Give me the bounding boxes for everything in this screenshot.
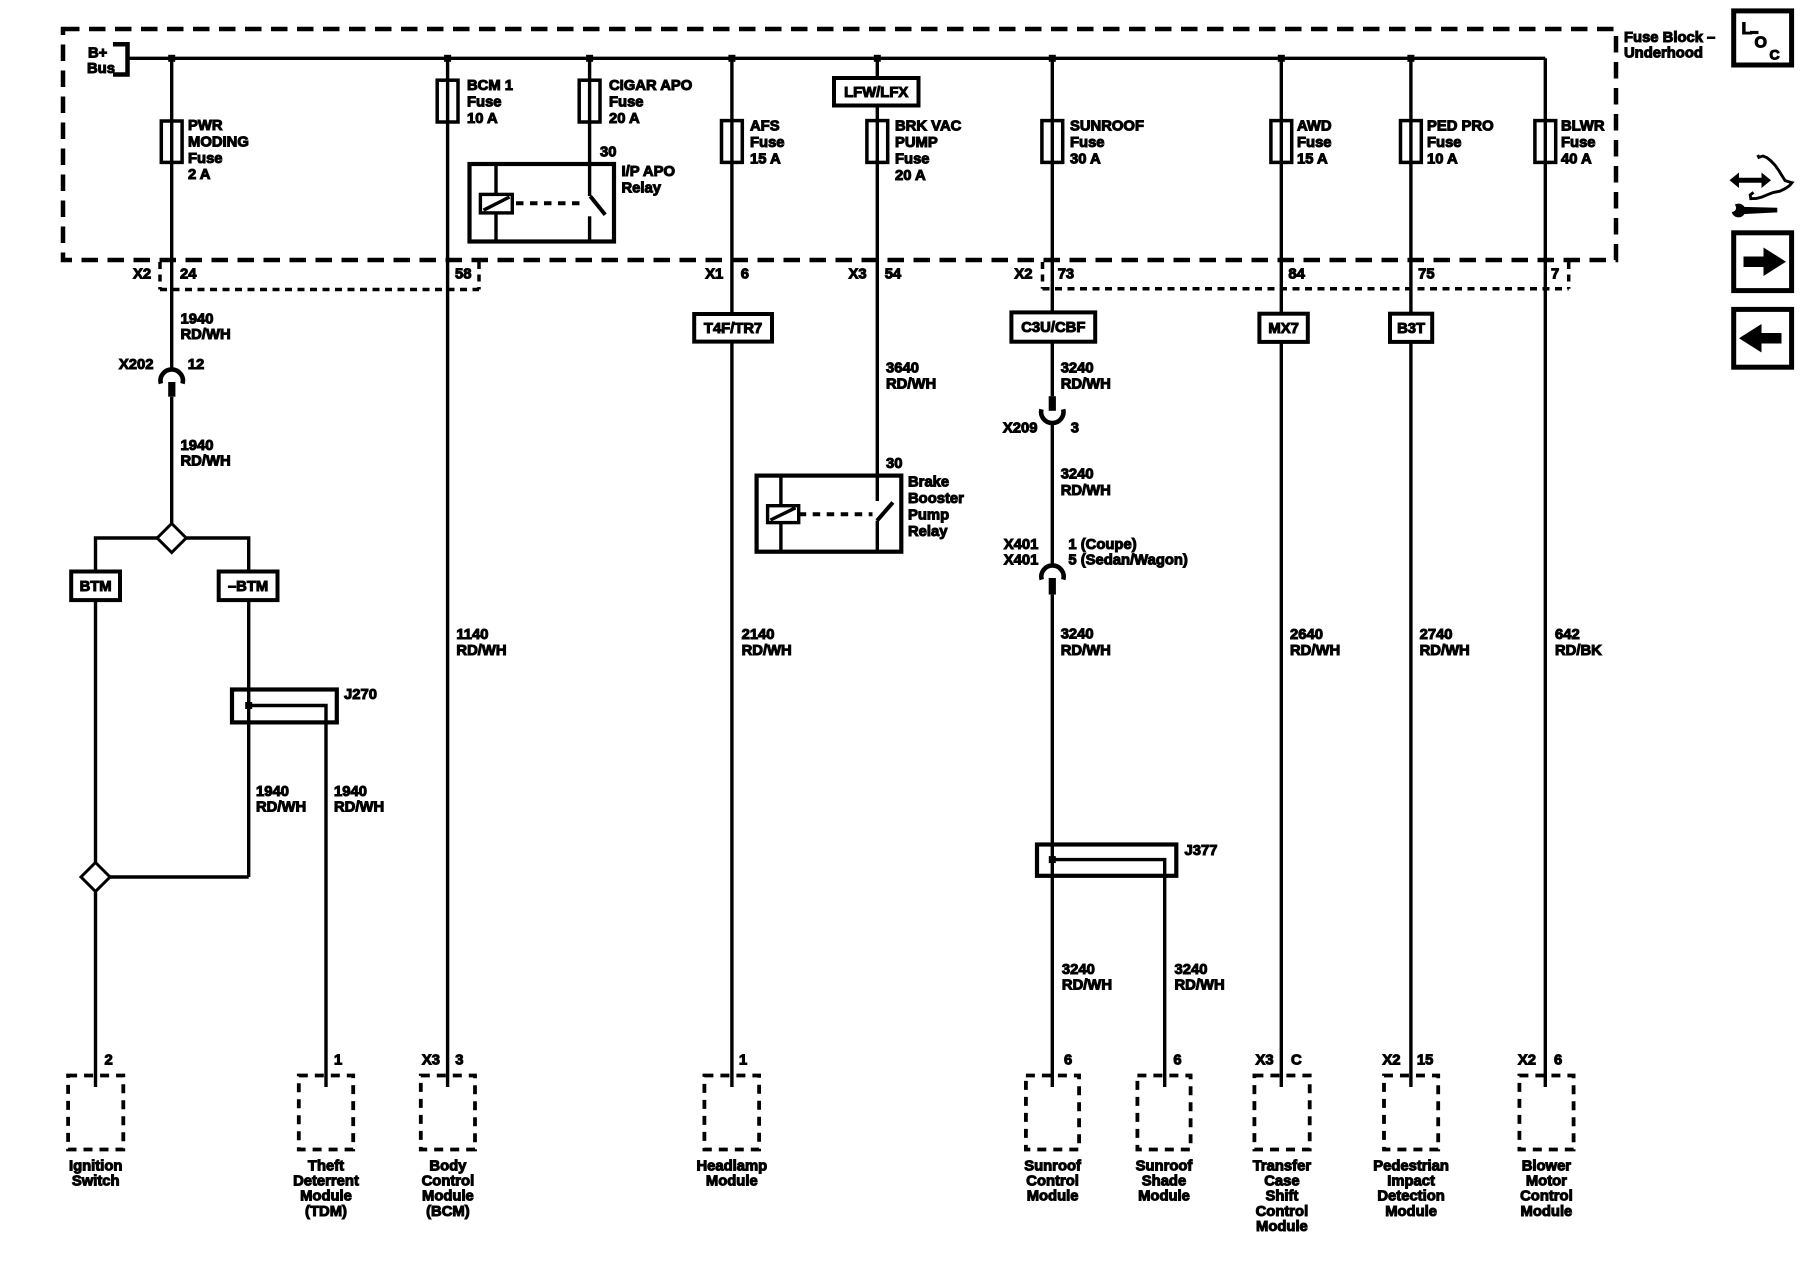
fuse BLWR label: [1561, 119, 1605, 168]
svg-text:3240: 3240: [1175, 962, 1208, 978]
svg-text:Motor: Motor: [1526, 1174, 1567, 1190]
fuse CIGAR APO label: [609, 78, 692, 127]
module headlamp: [696, 1076, 767, 1190]
svg-text:C: C: [1770, 47, 1780, 63]
wire label 2740 RD/WH: [1420, 627, 1470, 659]
connector X2 band (pins 73, 84, 75, 7): [1043, 262, 1569, 289]
wire label 3240 RD/WH (2): [1061, 467, 1111, 499]
svg-text:Blower: Blower: [1522, 1159, 1572, 1175]
svg-text:Theft: Theft: [308, 1159, 344, 1175]
relay brake booster pump label: [908, 475, 964, 540]
module blower motor control: [1519, 1076, 1573, 1220]
splice J270: [232, 690, 337, 1088]
node bus to BCM 1 fuse: [444, 55, 451, 62]
wire BRK VAC fuse to brake booster relay: [876, 58, 879, 501]
svg-text:RD/WH: RD/WH: [181, 327, 231, 343]
svg-text:58: 58: [455, 267, 471, 283]
svg-text:Pump: Pump: [908, 507, 949, 523]
svg-text:X401: X401: [1004, 537, 1039, 553]
svg-text:RD/BK: RD/BK: [1555, 643, 1602, 659]
wire diamond to BTM: [96, 538, 158, 572]
svg-text:Control: Control: [1520, 1189, 1573, 1205]
svg-text:Control: Control: [1026, 1174, 1079, 1190]
svg-text:Relay: Relay: [622, 180, 662, 196]
fuse AWD 15 A: [1271, 121, 1292, 163]
fuse AWD label: [1297, 119, 1332, 168]
svg-text:Deterrent: Deterrent: [293, 1174, 359, 1190]
svg-text:1940: 1940: [181, 311, 214, 327]
icon forward arrow box: [1734, 233, 1792, 291]
connector X202 female half: [161, 369, 183, 383]
wire diamond to ignition switch: [94, 892, 97, 1088]
svg-text:3240: 3240: [1061, 467, 1094, 483]
svg-text:Fuse: Fuse: [1297, 135, 1332, 151]
svg-text:B+: B+: [88, 46, 108, 62]
fuse CIGAR APO 20 A: [579, 80, 600, 122]
svg-text:RD/WH: RD/WH: [1420, 643, 1470, 659]
svg-text:L: L: [1742, 19, 1752, 38]
wire label 2140 RD/WH: [742, 627, 792, 659]
node bus to CIGAR APO fuse: [586, 55, 593, 62]
svg-text:J377: J377: [1185, 843, 1218, 859]
svg-text:3: 3: [455, 1053, 463, 1069]
fuse BCM 1 10 A: [437, 80, 458, 122]
connector X401 pin labels: [1068, 537, 1188, 569]
svg-text:LFW/LFX: LFW/LFX: [844, 85, 908, 101]
svg-text:3240: 3240: [1061, 360, 1094, 376]
fuse SUNROOF 30 A: [1042, 121, 1063, 163]
svg-text:Booster: Booster: [908, 491, 964, 507]
svg-text:SUNROOF: SUNROOF: [1070, 119, 1144, 135]
svg-text:I/P APO: I/P APO: [622, 164, 675, 180]
svg-text:75: 75: [1418, 267, 1434, 283]
svg-text:Pedestrian: Pedestrian: [1373, 1159, 1449, 1175]
wire diamond to -BTM: [186, 538, 249, 572]
svg-text:Brake: Brake: [908, 475, 949, 491]
module sunroof control: [1024, 1076, 1081, 1205]
svg-text:BTM: BTM: [80, 579, 112, 595]
node bus to AWD fuse: [1278, 55, 1285, 62]
module transfer case shift control: [1253, 1076, 1312, 1235]
svg-text:6: 6: [1064, 1053, 1072, 1069]
node bus to BRK VAC PUMP fuse: [874, 55, 881, 62]
svg-text:(TDM): (TDM): [305, 1204, 347, 1220]
svg-text:15: 15: [1417, 1053, 1433, 1069]
svg-text:X202: X202: [119, 357, 154, 373]
fuse PWR MODING label: [188, 118, 249, 183]
svg-text:X401: X401: [1004, 552, 1039, 568]
splice diamond lower: [81, 863, 110, 892]
svg-text:Shift: Shift: [1265, 1189, 1298, 1205]
svg-text:Module: Module: [300, 1189, 352, 1205]
wire X209 to X401: [1051, 423, 1054, 567]
svg-text:PWR: PWR: [188, 118, 223, 134]
svg-text:Module: Module: [1385, 1204, 1437, 1220]
wire X202 to splice diamond: [170, 397, 173, 524]
svg-text:X3: X3: [849, 267, 867, 283]
svg-text:MX7: MX7: [1268, 321, 1298, 337]
svg-text:RD/WH: RD/WH: [742, 643, 792, 659]
svg-text:Case: Case: [1264, 1174, 1299, 1190]
svg-text:AWD: AWD: [1297, 119, 1332, 135]
module theft deterrent module (TDM): [293, 1076, 359, 1220]
svg-text:Body: Body: [429, 1159, 467, 1175]
svg-text:2640: 2640: [1290, 627, 1323, 643]
svg-text:CIGAR APO: CIGAR APO: [609, 78, 692, 94]
connector X401 female half: [1041, 565, 1063, 579]
svg-text:1940: 1940: [181, 438, 214, 454]
relay I/P APO: [470, 164, 615, 242]
svg-text:3: 3: [1071, 420, 1079, 436]
wire label 642 RD/BK: [1555, 627, 1602, 659]
wire label 1940 RD/WH (right of J270): [334, 784, 384, 816]
svg-text:T4F/TR7: T4F/TR7: [704, 321, 762, 337]
wire BTM to splice diamond lower: [94, 600, 97, 863]
connector X209 female half: [1041, 409, 1063, 423]
svg-text:RD/WH: RD/WH: [1062, 977, 1112, 993]
svg-text:5 (Sedan/Wagon): 5 (Sedan/Wagon): [1068, 552, 1188, 568]
svg-text:Module: Module: [1027, 1189, 1079, 1205]
svg-text:Switch: Switch: [72, 1174, 120, 1190]
node bus to PED PRO fuse: [1407, 55, 1414, 62]
svg-text:73: 73: [1058, 267, 1074, 283]
svg-text:2 A: 2 A: [188, 167, 211, 183]
svg-text:84: 84: [1288, 267, 1305, 283]
svg-text:RD/WH: RD/WH: [181, 454, 231, 470]
fuse BLWR 40 A: [1535, 121, 1556, 163]
fuse BRK VAC PUMP 20 A: [867, 121, 888, 163]
svg-text:RD/WH: RD/WH: [1061, 483, 1111, 499]
wire label 1940 RD/WH (lower): [181, 438, 231, 470]
node bus to AFS fuse: [728, 55, 735, 62]
svg-text:Headlamp: Headlamp: [696, 1159, 767, 1175]
connector X401 male pin: [1049, 578, 1056, 595]
svg-text:2740: 2740: [1420, 627, 1453, 643]
svg-text:20 A: 20 A: [895, 168, 926, 184]
fuse PED PRO 10 A: [1401, 121, 1422, 163]
node bus to PWR MODING fuse: [168, 55, 175, 62]
switch contact BTM: [71, 572, 120, 601]
svg-text:10 A: 10 A: [1427, 151, 1458, 167]
fuse block label: [1624, 30, 1715, 62]
net tag MX7: [1259, 314, 1307, 342]
svg-text:RD/WH: RD/WH: [256, 800, 306, 816]
module body control module (BCM): [421, 1076, 475, 1220]
svg-text:Transfer: Transfer: [1253, 1159, 1312, 1175]
net tag B3T: [1390, 314, 1432, 342]
svg-text:Fuse: Fuse: [188, 151, 223, 167]
svg-text:X2: X2: [133, 267, 151, 283]
svg-text:Fuse: Fuse: [750, 135, 785, 151]
relay I/P APO label: [622, 164, 675, 196]
svg-text:X209: X209: [1003, 420, 1038, 436]
fuse BCM 1 label: [467, 78, 513, 127]
wire label 1940 RD/WH (left of J270): [256, 784, 306, 816]
svg-text:3240: 3240: [1062, 962, 1095, 978]
icon service arrows and wrench: [1725, 155, 1792, 217]
svg-text:3640: 3640: [886, 360, 919, 376]
svg-text:Control: Control: [422, 1174, 475, 1190]
fuse AFS label: [750, 119, 785, 168]
fuse SUNROOF label: [1070, 119, 1144, 168]
wire label 2640 RD/WH: [1290, 627, 1340, 659]
wire label 3240 RD/WH (left of J377): [1062, 962, 1112, 994]
svg-text:–BTM: –BTM: [228, 579, 268, 595]
wire -BTM through J270 to diamond horizontal: [247, 600, 250, 877]
svg-text:MODING: MODING: [188, 134, 249, 150]
svg-text:C: C: [1291, 1053, 1302, 1069]
svg-text:1140: 1140: [456, 627, 488, 643]
svg-text:RD/WH: RD/WH: [886, 377, 936, 393]
svg-text:X2: X2: [1518, 1053, 1536, 1069]
wire PWR MODING fuse to X202: [170, 58, 173, 370]
wire B+ bus horizontal: [128, 57, 1546, 60]
B+ Bus label: [87, 46, 115, 78]
module ignition switch: [68, 1076, 123, 1190]
svg-text:RD/WH: RD/WH: [1175, 977, 1225, 993]
svg-text:1 (Coupe): 1 (Coupe): [1068, 537, 1136, 553]
svg-text:1940: 1940: [256, 784, 289, 800]
wire label 3640 RD/WH: [886, 360, 936, 392]
svg-text:Fuse: Fuse: [609, 94, 644, 110]
svg-text:AFS: AFS: [750, 119, 780, 135]
wire label 3240 RD/WH (right of J377): [1175, 962, 1225, 994]
svg-text:BCM 1: BCM 1: [467, 78, 513, 94]
svg-text:1: 1: [334, 1053, 342, 1069]
fuse AFS 15 A: [722, 121, 743, 163]
svg-text:Module: Module: [1521, 1204, 1573, 1220]
wire AWD fuse to transfer case module: [1280, 58, 1283, 1087]
svg-text:X1: X1: [705, 267, 723, 283]
svg-text:30: 30: [600, 145, 616, 161]
svg-text:Ignition: Ignition: [69, 1159, 122, 1175]
svg-text:Fuse: Fuse: [1070, 135, 1105, 151]
svg-text:BLWR: BLWR: [1561, 119, 1605, 135]
svg-text:24: 24: [180, 267, 197, 283]
svg-text:X2: X2: [1382, 1053, 1400, 1069]
connector X2 band (pins 24, 58): [160, 262, 479, 290]
svg-text:20 A: 20 A: [609, 111, 640, 127]
wire label 1140 RD/WH: [456, 627, 506, 659]
svg-text:1: 1: [739, 1053, 747, 1069]
svg-text:(BCM): (BCM): [426, 1204, 470, 1220]
svg-text:54: 54: [885, 267, 902, 283]
svg-text:6: 6: [1554, 1053, 1562, 1069]
svg-text:X3: X3: [422, 1053, 440, 1069]
connector X202 male pin: [168, 382, 175, 397]
wire label 3240 RD/WH (1): [1061, 360, 1111, 392]
wire PED PRO fuse to pedestrian module: [1409, 58, 1412, 1087]
icon back arrow box: [1734, 309, 1792, 367]
svg-text:30 A: 30 A: [1070, 151, 1101, 167]
svg-text:15 A: 15 A: [1297, 151, 1328, 167]
svg-text:Fuse Block –: Fuse Block –: [1624, 30, 1715, 46]
svg-text:7: 7: [1551, 267, 1559, 283]
splice J377: [1037, 845, 1176, 1088]
fuse PED PRO label: [1427, 119, 1494, 168]
net tag LFW/LFX: [834, 78, 919, 106]
wire BCM 1 fuse to BCM module: [446, 58, 449, 1087]
svg-text:Relay: Relay: [908, 524, 948, 540]
svg-text:Fuse: Fuse: [1561, 135, 1596, 151]
svg-text:12: 12: [188, 357, 204, 373]
svg-text:15 A: 15 A: [750, 151, 781, 167]
wire SUNROOF fuse to X209: [1051, 58, 1054, 396]
svg-text:Module: Module: [1256, 1219, 1308, 1235]
wire label 3240 RD/WH (3): [1061, 627, 1111, 659]
svg-text:RD/WH: RD/WH: [1290, 643, 1340, 659]
svg-text:3240: 3240: [1061, 627, 1094, 643]
svg-text:PED PRO: PED PRO: [1427, 119, 1494, 135]
svg-text:Fuse: Fuse: [895, 151, 930, 167]
svg-text:Fuse: Fuse: [467, 94, 502, 110]
svg-text:PUMP: PUMP: [895, 135, 938, 151]
svg-text:J270: J270: [344, 687, 377, 703]
wire label 1940 RD/WH (upper): [181, 311, 231, 343]
svg-text:Shade: Shade: [1142, 1174, 1186, 1190]
wire X401 to J377 and sunroof control module: [1051, 595, 1054, 1087]
svg-text:Sunroof: Sunroof: [1136, 1159, 1193, 1175]
wire BLWR fuse to blower module: [1544, 58, 1547, 1087]
fuse BRK VAC PUMP label: [895, 119, 962, 184]
fuse block underhood dashed boundary: [63, 29, 1616, 260]
svg-text:6: 6: [741, 267, 749, 283]
node bus to SUNROOF fuse: [1049, 55, 1056, 62]
svg-text:BRK VAC: BRK VAC: [895, 119, 962, 135]
svg-text:40 A: 40 A: [1561, 151, 1592, 167]
wire AFS fuse to headlamp module: [730, 58, 733, 1087]
svg-text:30: 30: [886, 456, 902, 472]
connector X209 male pin: [1049, 396, 1056, 411]
svg-text:B3T: B3T: [1397, 321, 1425, 337]
svg-text:Underhood: Underhood: [1624, 46, 1703, 62]
svg-text:6: 6: [1173, 1053, 1181, 1069]
svg-text:Impact: Impact: [1387, 1174, 1435, 1190]
svg-text:Sunroof: Sunroof: [1024, 1159, 1081, 1175]
svg-text:RD/WH: RD/WH: [1061, 377, 1111, 393]
svg-text:Module: Module: [422, 1189, 474, 1205]
svg-text:2140: 2140: [742, 627, 775, 643]
svg-text:1940: 1940: [334, 784, 367, 800]
svg-text:RD/WH: RD/WH: [456, 643, 506, 659]
module sunroof shade: [1136, 1076, 1193, 1205]
svg-text:642: 642: [1555, 627, 1580, 643]
svg-text:Module: Module: [1138, 1189, 1190, 1205]
wire diamond lower junction: [110, 875, 249, 878]
svg-text:RD/WH: RD/WH: [334, 800, 384, 816]
icon LOC box: [1734, 11, 1792, 65]
svg-text:X2: X2: [1014, 267, 1032, 283]
svg-text:Detection: Detection: [1377, 1189, 1444, 1205]
svg-text:Control: Control: [1256, 1204, 1309, 1220]
svg-text:O: O: [1755, 35, 1767, 52]
svg-text:2: 2: [105, 1053, 113, 1069]
module pedestrian impact detection: [1373, 1076, 1449, 1220]
svg-text:10 A: 10 A: [467, 111, 498, 127]
fuse PWR MODING 2 A: [161, 121, 182, 162]
connector X401 label: [1004, 537, 1039, 569]
svg-text:Fuse: Fuse: [1427, 135, 1462, 151]
svg-text:RD/WH: RD/WH: [1061, 643, 1111, 659]
switch contact -BTM: [219, 572, 278, 601]
splice diamond upper: [157, 524, 186, 553]
svg-text:C3U/CBF: C3U/CBF: [1021, 320, 1085, 336]
wire CIGAR APO fuse to relay pin 30: [588, 58, 591, 196]
net tag T4F/TR7: [694, 314, 772, 342]
svg-text:Module: Module: [706, 1174, 758, 1190]
svg-text:X3: X3: [1256, 1053, 1274, 1069]
net tag C3U/CBF: [1011, 312, 1095, 341]
B+ Bus terminal bracket: [113, 44, 128, 74]
svg-text:Bus: Bus: [87, 61, 115, 77]
relay brake booster pump: [757, 476, 902, 552]
